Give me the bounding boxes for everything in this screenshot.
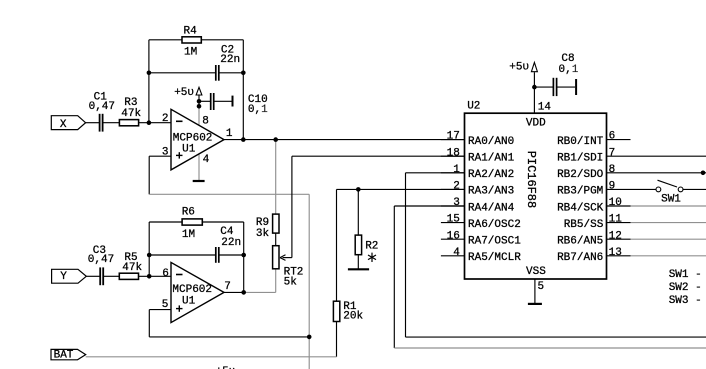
svg-text:47k: 47k bbox=[122, 262, 142, 274]
svg-text:16: 16 bbox=[447, 230, 460, 242]
svg-text:2: 2 bbox=[162, 113, 169, 125]
svg-text:RB4/SCK: RB4/SCK bbox=[557, 202, 604, 214]
svg-text:PIC16F88: PIC16F88 bbox=[524, 151, 538, 209]
svg-text:18: 18 bbox=[447, 147, 460, 159]
svg-text:RB6/AN5: RB6/AN5 bbox=[557, 236, 603, 248]
svg-text:0,47: 0,47 bbox=[89, 101, 115, 113]
svg-text:1M: 1M bbox=[182, 229, 195, 241]
svg-text:RA2/AN2: RA2/AN2 bbox=[468, 169, 514, 181]
svg-text:RA4/AN4: RA4/AN4 bbox=[468, 202, 515, 214]
svg-text:X: X bbox=[60, 119, 67, 131]
svg-text:0,47: 0,47 bbox=[88, 254, 114, 266]
svg-text:47k: 47k bbox=[121, 108, 141, 120]
svg-text:SW1 -: SW1 - bbox=[669, 269, 702, 281]
svg-text:U2: U2 bbox=[467, 101, 480, 113]
svg-text:12: 12 bbox=[609, 230, 622, 242]
svg-text:17: 17 bbox=[447, 131, 460, 143]
svg-text:Y: Y bbox=[60, 271, 67, 283]
svg-text:RA3/AN3: RA3/AN3 bbox=[468, 186, 514, 198]
svg-text:6: 6 bbox=[162, 268, 169, 280]
svg-text:10: 10 bbox=[609, 197, 622, 209]
svg-text:R6: R6 bbox=[182, 207, 195, 219]
svg-text:+5υ: +5υ bbox=[509, 61, 529, 73]
svg-text:MCP602: MCP602 bbox=[172, 284, 212, 296]
svg-text:U1: U1 bbox=[182, 296, 196, 308]
svg-text:9: 9 bbox=[609, 181, 616, 193]
svg-text:RB2/SDO: RB2/SDO bbox=[557, 169, 604, 181]
svg-text:14: 14 bbox=[538, 102, 552, 114]
svg-text:8: 8 bbox=[202, 115, 209, 127]
svg-text:3: 3 bbox=[453, 197, 460, 209]
svg-text:7: 7 bbox=[224, 281, 231, 293]
svg-text:15: 15 bbox=[447, 214, 460, 226]
svg-text:2: 2 bbox=[453, 181, 460, 193]
svg-text:20k: 20k bbox=[343, 311, 363, 323]
svg-text:22n: 22n bbox=[220, 54, 240, 66]
svg-text:3k: 3k bbox=[256, 228, 270, 240]
svg-text:RA1/AN1: RA1/AN1 bbox=[468, 153, 515, 165]
svg-text:22n: 22n bbox=[221, 237, 241, 249]
svg-text:RA0/AN0: RA0/AN0 bbox=[468, 136, 514, 148]
svg-text:1: 1 bbox=[226, 128, 233, 140]
svg-text:7: 7 bbox=[609, 147, 616, 159]
svg-text:5k: 5k bbox=[284, 276, 298, 288]
svg-text:3: 3 bbox=[162, 147, 169, 159]
svg-text:RB5/SS: RB5/SS bbox=[564, 219, 604, 231]
svg-text:5: 5 bbox=[162, 299, 169, 311]
svg-text:C4: C4 bbox=[220, 226, 234, 238]
svg-text:5: 5 bbox=[538, 281, 545, 293]
svg-text:RA6/OSC2: RA6/OSC2 bbox=[468, 219, 521, 231]
svg-text:1: 1 bbox=[261, 104, 268, 116]
svg-text:BAT: BAT bbox=[54, 350, 74, 362]
svg-text:4: 4 bbox=[203, 154, 210, 166]
svg-text:VSS: VSS bbox=[526, 266, 546, 278]
svg-text:RB3/PGM: RB3/PGM bbox=[557, 186, 603, 198]
svg-text:1M: 1M bbox=[184, 47, 197, 59]
svg-text:8: 8 bbox=[609, 164, 616, 176]
svg-text:R4: R4 bbox=[184, 26, 198, 38]
svg-text:U1: U1 bbox=[182, 143, 196, 155]
svg-text:4: 4 bbox=[453, 247, 460, 259]
svg-text:RA7/OSC1: RA7/OSC1 bbox=[468, 236, 521, 248]
svg-text:R2: R2 bbox=[365, 240, 378, 252]
svg-text:0,: 0, bbox=[248, 104, 261, 116]
svg-text:RB7/AN6: RB7/AN6 bbox=[557, 252, 603, 264]
svg-text:SW2 -: SW2 - bbox=[669, 282, 702, 294]
svg-text:13: 13 bbox=[609, 247, 622, 259]
svg-text:SW1: SW1 bbox=[661, 194, 681, 206]
svg-text:+5υ: +5υ bbox=[174, 87, 194, 99]
svg-text:1: 1 bbox=[572, 64, 579, 76]
svg-text:RB1/SDI: RB1/SDI bbox=[557, 153, 603, 165]
svg-text:SW3 -: SW3 - bbox=[669, 295, 702, 307]
svg-text:11: 11 bbox=[609, 214, 623, 226]
svg-text:0,: 0, bbox=[559, 64, 572, 76]
svg-text:RB0/INT: RB0/INT bbox=[557, 136, 604, 148]
svg-text:RA5/MCLR: RA5/MCLR bbox=[468, 252, 521, 264]
svg-text:6: 6 bbox=[609, 131, 616, 143]
svg-text:1: 1 bbox=[453, 164, 460, 176]
svg-text:VDD: VDD bbox=[526, 117, 546, 129]
